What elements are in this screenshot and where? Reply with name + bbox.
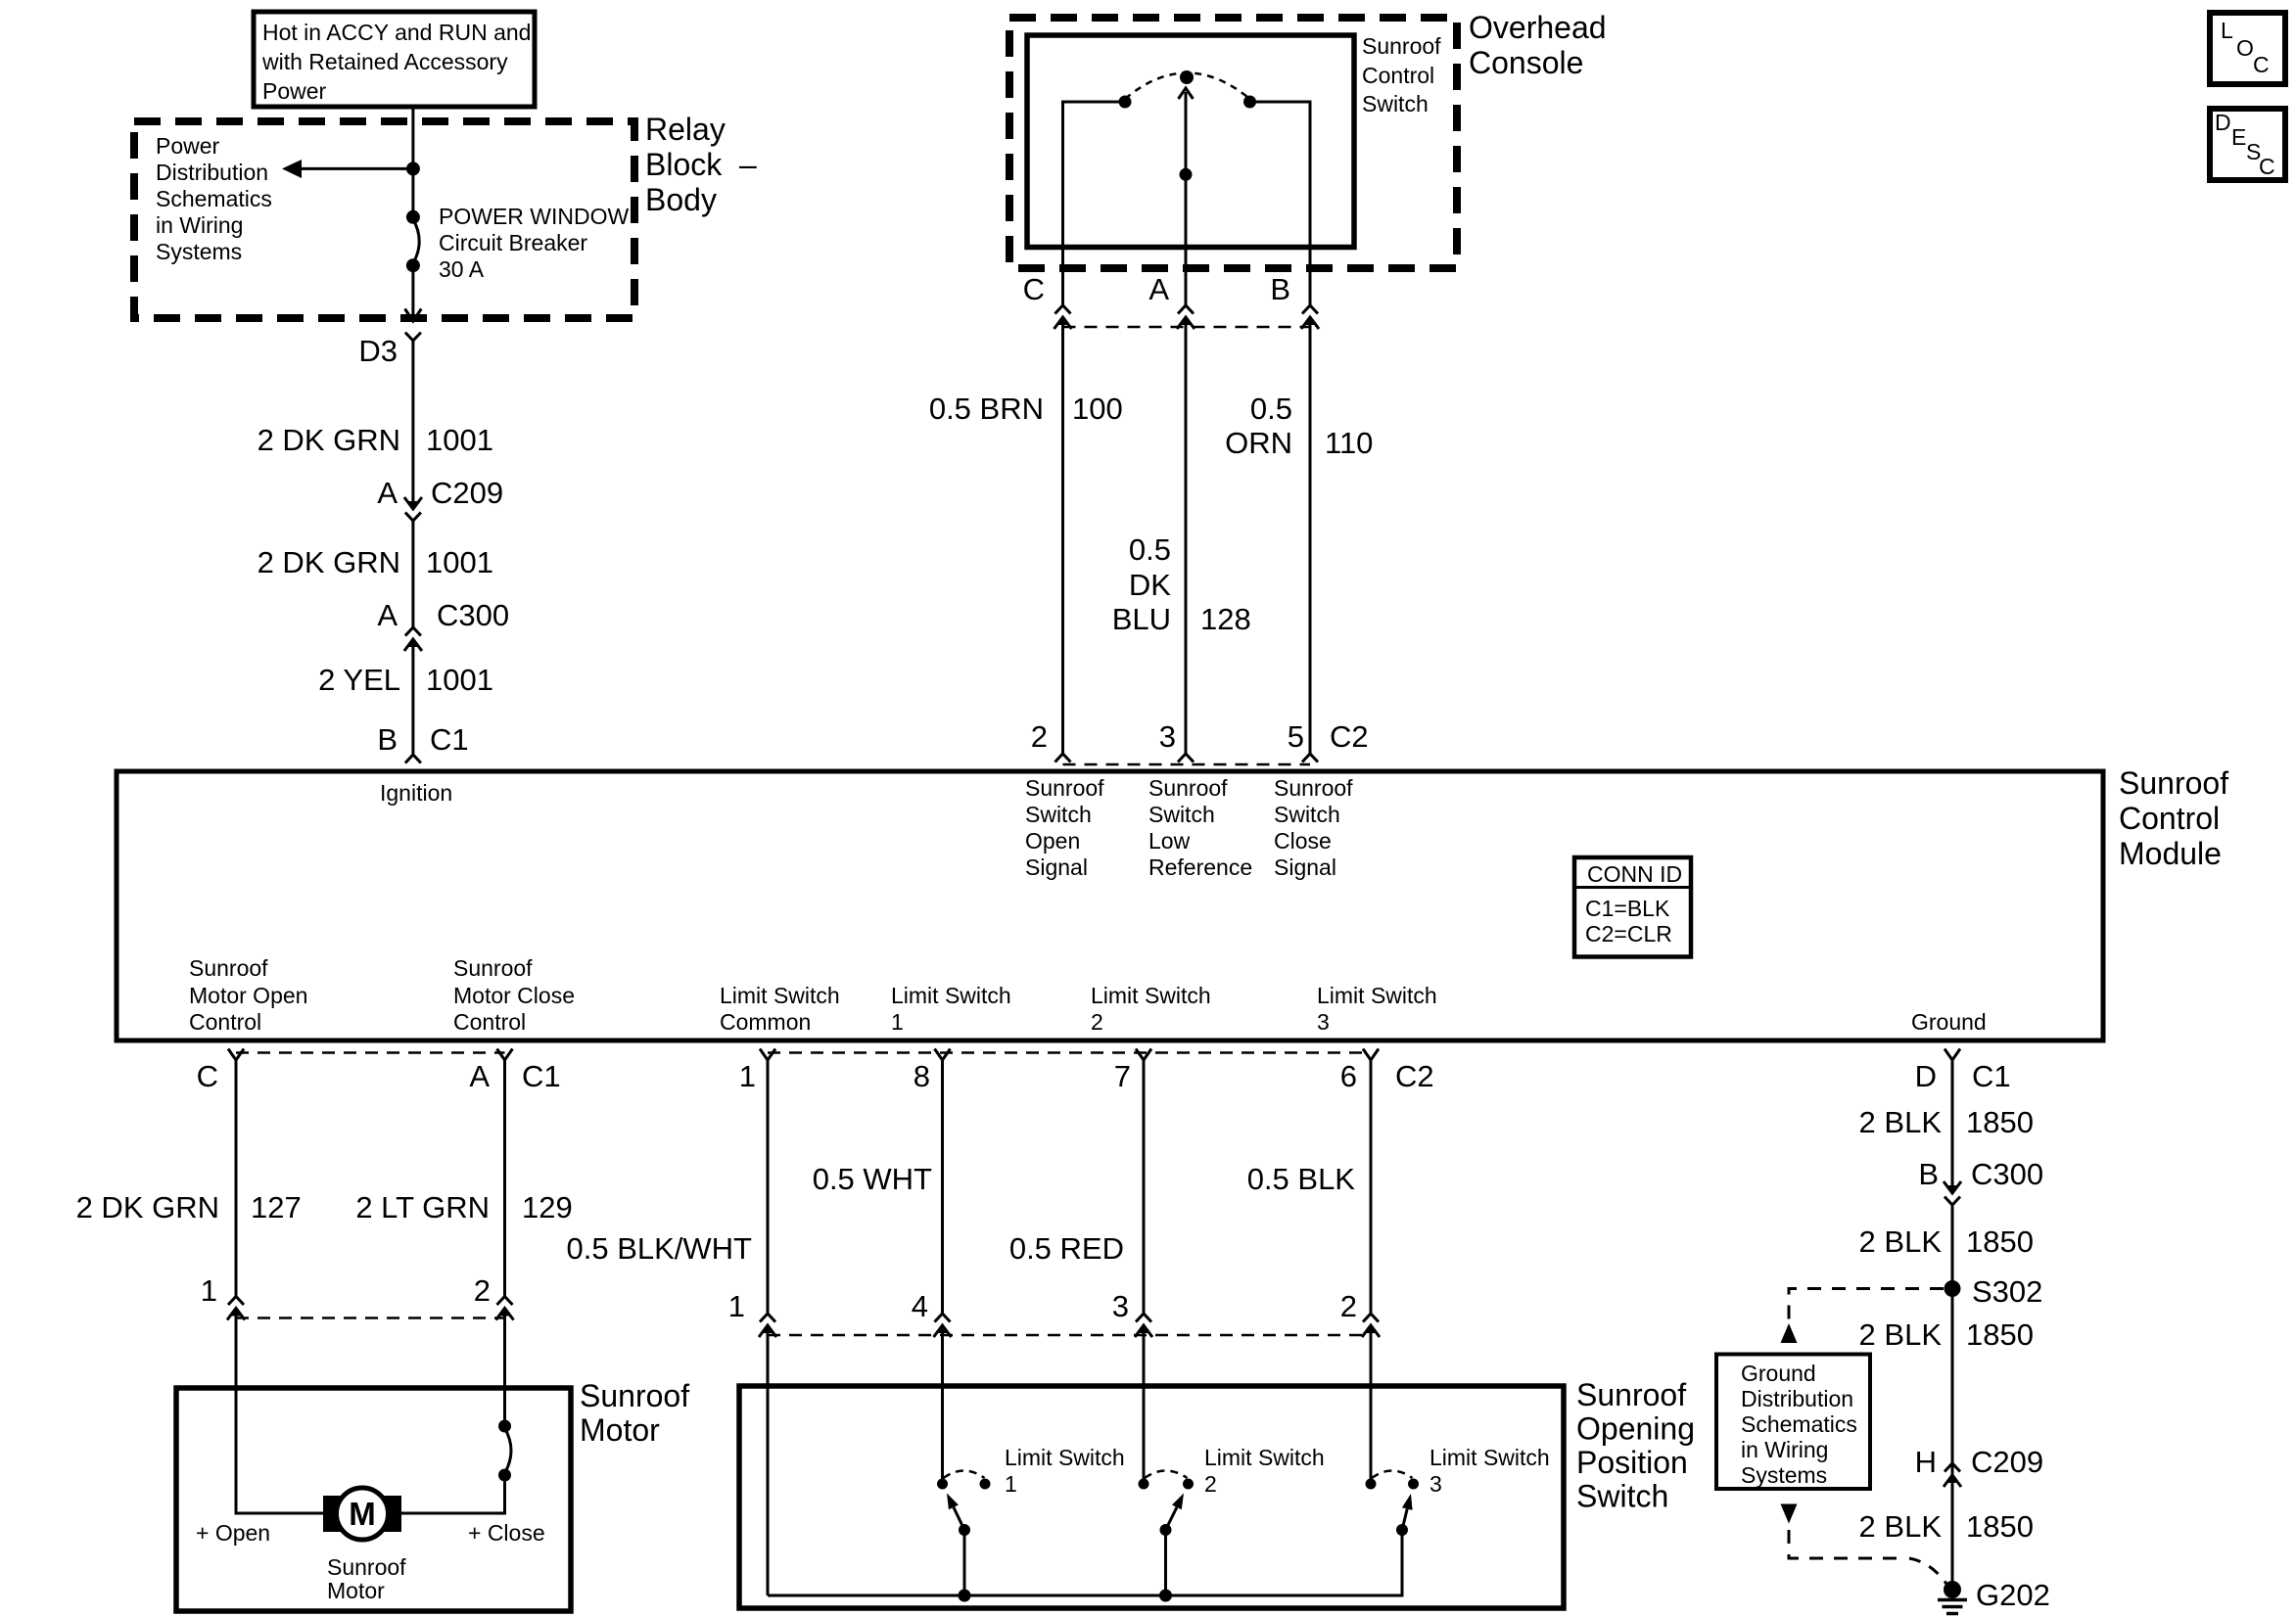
wire into motor box pin1 [235, 1309, 238, 1389]
wire: module pin 1 to position switch [767, 1060, 770, 1314]
svg-text:Distribution: Distribution [156, 160, 268, 185]
sunroof control module title [2119, 765, 2228, 871]
sunroof control module U1 [117, 771, 2103, 1040]
wire: module pin 7 to limit switch 2 [1143, 1060, 1146, 1314]
svg-text:Limit Switch: Limit Switch [891, 983, 1011, 1008]
wire: hot feed into relay block [411, 107, 414, 217]
svg-text:Schematics: Schematics [1741, 1411, 1857, 1437]
svg-text:1850: 1850 [1966, 1105, 2034, 1139]
connector C209 pin A [377, 476, 503, 521]
wire: common leg inside box [767, 1325, 770, 1595]
svg-text:C1: C1 [430, 722, 469, 757]
motor M symbol [323, 1488, 401, 1540]
svg-text:110: 110 [1325, 426, 1373, 460]
svg-text:2 YEL: 2 YEL [318, 663, 400, 697]
svg-text:Limit Switch: Limit Switch [1429, 1445, 1550, 1470]
wire: console pin A lead [1185, 248, 1188, 306]
svg-text:3: 3 [1159, 719, 1176, 754]
svg-text:Limit Switch: Limit Switch [1204, 1445, 1325, 1470]
svg-text:0.5: 0.5 [1250, 392, 1292, 426]
svg-text:5: 5 [1288, 719, 1304, 754]
svg-text:B: B [1270, 272, 1290, 306]
svg-text:2 DK GRN: 2 DK GRN [258, 423, 400, 457]
svg-text:Control: Control [189, 1009, 261, 1035]
dashed throw arc of switch [1125, 73, 1250, 100]
power source box: Hot in ACCY and RUN [254, 12, 535, 107]
dashed tie position switch connector [768, 1334, 1371, 1337]
connector C209 pin H [1915, 1445, 2044, 1487]
svg-text:C: C [2253, 52, 2270, 77]
svg-text:Systems: Systems [156, 239, 242, 264]
port label Limit Switch 2 [1091, 983, 1211, 1035]
svg-text:2: 2 [1340, 1289, 1357, 1323]
svg-text:C: C [2259, 154, 2275, 179]
power distribution note [156, 133, 272, 264]
svg-text:Switch: Switch [1576, 1479, 1668, 1514]
wire: module pin C to motor [235, 1060, 238, 1297]
svg-text:DK: DK [1129, 568, 1171, 602]
svg-text:127: 127 [251, 1190, 302, 1224]
svg-text:2 BLK: 2 BLK [1859, 1224, 1943, 1259]
wire: switch contact C leg [1063, 102, 1126, 248]
svg-text:Motor Open: Motor Open [189, 983, 307, 1008]
svg-text:S302: S302 [1972, 1274, 2042, 1309]
switch pin 1 connector [728, 1289, 776, 1337]
svg-text:Power: Power [156, 133, 220, 159]
wire: C300 to module pin B [411, 639, 414, 755]
svg-text:Sunroof: Sunroof [1274, 775, 1353, 801]
svg-text:Motor Close: Motor Close [453, 983, 575, 1008]
node: switch contact left [1119, 96, 1132, 109]
DESC reference box [2210, 109, 2285, 180]
wire label 0.5 DK BLU 128 [1112, 532, 1251, 636]
module pin 5 connector C2 [1288, 719, 1369, 762]
module pin 7 connector [1114, 1049, 1151, 1094]
svg-text:0.5 WHT: 0.5 WHT [813, 1162, 932, 1196]
port label Limit Switch Common [720, 983, 840, 1035]
thermal protector arc in motor [401, 1388, 511, 1513]
svg-text:Close: Close [1274, 828, 1332, 854]
svg-text:Sunroof: Sunroof [327, 1554, 406, 1580]
port label Sunroof Switch Close Signal [1274, 775, 1353, 880]
wire: switch contact B leg [1250, 102, 1311, 248]
svg-text:0.5 BRN: 0.5 BRN [929, 392, 1044, 426]
svg-text:1: 1 [739, 1059, 756, 1093]
svg-text:C300: C300 [437, 598, 509, 632]
svg-text:1850: 1850 [1966, 1509, 2034, 1544]
svg-text:+ Open: + Open [196, 1520, 270, 1546]
svg-text:Signal: Signal [1025, 855, 1088, 880]
svg-text:Systems: Systems [1741, 1462, 1827, 1488]
switch common armature with arrow [1179, 70, 1195, 248]
sunroof control switch box SW1 [1027, 35, 1354, 248]
wire: C209 to C300 [411, 521, 414, 627]
wire: console pin C lead [1061, 248, 1064, 306]
svg-text:Limit Switch: Limit Switch [1317, 983, 1437, 1008]
svg-text:7: 7 [1114, 1059, 1131, 1093]
svg-text:Sunroof: Sunroof [1025, 775, 1104, 801]
svg-text:D: D [2215, 110, 2231, 135]
port label Limit Switch 1 [891, 983, 1011, 1035]
position switch title [1576, 1377, 1695, 1514]
LOC reference box [2210, 13, 2285, 84]
svg-text:A: A [377, 476, 398, 510]
svg-text:C: C [197, 1059, 218, 1093]
svg-text:1: 1 [1005, 1471, 1017, 1497]
overhead console dashed enclosure [1009, 18, 1457, 268]
dashed stub to ground distribution [1781, 1289, 1945, 1344]
svg-text:C2: C2 [1395, 1059, 1434, 1093]
svg-text:C1=BLK: C1=BLK [1585, 896, 1670, 921]
module pin 6 connector C2 [1340, 1049, 1434, 1094]
svg-text:Sunroof: Sunroof [1362, 33, 1441, 59]
svg-text:Open: Open [1025, 828, 1080, 854]
wire: D3 to C209 [411, 341, 414, 505]
sunroof control switch label [1362, 33, 1441, 116]
svg-text:Circuit Breaker: Circuit Breaker [439, 230, 587, 255]
wire: console pin B lead [1309, 248, 1312, 306]
wire label 2 DK GRN 127 [76, 1190, 302, 1224]
svg-text:Sunroof: Sunroof [189, 955, 268, 981]
module pin 3 connector [1159, 719, 1194, 762]
port label Limit Switch 3 [1317, 983, 1437, 1035]
svg-text:Block –: Block – [645, 147, 757, 182]
svg-text:3: 3 [1317, 1009, 1330, 1035]
svg-text:Console: Console [1469, 45, 1583, 80]
svg-text:Opening: Opening [1576, 1411, 1695, 1447]
connector at console pin B [1301, 305, 1319, 329]
circuit breaker CB: POWER WINDOW 30 A [406, 210, 420, 272]
wire: pin 2 leg into box [1370, 1325, 1373, 1484]
svg-text:H: H [1915, 1445, 1937, 1479]
svg-text:Limit Switch: Limit Switch [1091, 983, 1211, 1008]
svg-text:Motor: Motor [327, 1578, 385, 1603]
wire label 2 BLK 1850 [1859, 1224, 2034, 1259]
svg-text:Control: Control [1362, 63, 1434, 88]
svg-text:C2: C2 [1330, 719, 1369, 754]
node: bus junction 2 [1159, 1590, 1172, 1602]
dashed connector tie line [1063, 326, 1311, 329]
node: feed junction [406, 162, 420, 175]
svg-text:Ground: Ground [1741, 1361, 1816, 1386]
svg-text:Switch: Switch [1362, 91, 1429, 116]
wire label 2 BLK 1850 [1859, 1509, 2034, 1544]
wire: module pin 8 to limit switch 1 [941, 1060, 944, 1314]
port label Sunroof Motor Close Control [453, 955, 575, 1035]
relay block dashed enclosure [134, 121, 634, 318]
svg-text:C1: C1 [522, 1059, 561, 1093]
common bus of position switch [768, 1530, 1402, 1595]
svg-text:Module: Module [2119, 836, 2222, 871]
ground G202 [1938, 1578, 2050, 1614]
svg-text:C1: C1 [1972, 1059, 2011, 1093]
wire: C300 to S302 [1951, 1205, 1954, 1590]
svg-text:Relay: Relay [645, 112, 726, 147]
wire: module pin 6 to limit switch 3 [1370, 1060, 1373, 1314]
svg-text:1850: 1850 [1966, 1224, 2034, 1259]
limit switch LS1 [937, 1471, 991, 1596]
svg-text:Schematics: Schematics [156, 186, 272, 211]
module pin 1 connector [739, 1049, 775, 1094]
svg-text:BLU: BLU [1112, 602, 1171, 636]
dashed tie C to A [236, 1051, 505, 1054]
svg-text:B: B [377, 722, 398, 757]
svg-text:D: D [1915, 1059, 1937, 1093]
module pin 2 connector [1031, 719, 1071, 762]
wire label 2 DK GRN 1001 [258, 423, 493, 457]
switch pin 2 connector [1340, 1289, 1380, 1337]
motor pin 2 connector [474, 1273, 514, 1320]
svg-text:1: 1 [891, 1009, 904, 1035]
svg-text:1001: 1001 [426, 423, 493, 457]
svg-text:2 BLK: 2 BLK [1859, 1317, 1943, 1352]
svg-text:30 A: 30 A [439, 256, 485, 282]
svg-text:Sunroof: Sunroof [2119, 765, 2228, 801]
svg-text:Control: Control [453, 1009, 526, 1035]
limit switch LS2 [1139, 1471, 1195, 1596]
svg-text:Control: Control [2119, 801, 2220, 836]
wire: pin 4 leg into box [941, 1325, 944, 1484]
svg-text:with Retained Accessory: with Retained Accessory [261, 49, 508, 74]
wire label 2 LT GRN 129 [355, 1190, 572, 1224]
dashed tie motor connector [236, 1317, 505, 1319]
svg-text:Motor: Motor [580, 1412, 660, 1448]
svg-text:128: 128 [1200, 602, 1251, 636]
svg-text:A: A [1148, 272, 1169, 306]
svg-text:Limit Switch: Limit Switch [1005, 1445, 1125, 1470]
svg-text:Ground: Ground [1911, 1009, 1987, 1035]
port label Sunroof Switch Open Signal [1025, 775, 1104, 880]
svg-text:Reference: Reference [1148, 855, 1252, 880]
svg-text:1850: 1850 [1966, 1317, 2034, 1352]
svg-text:B: B [1918, 1157, 1939, 1191]
svg-text:1: 1 [201, 1273, 217, 1308]
svg-text:Sunroof: Sunroof [580, 1378, 689, 1413]
ground distribution note box [1716, 1355, 1870, 1490]
port label Sunroof Motor Open Control [189, 955, 307, 1035]
svg-text:+ Close: + Close [468, 1520, 545, 1546]
relay block title [645, 112, 757, 217]
svg-text:2 BLK: 2 BLK [1859, 1509, 1943, 1544]
svg-text:A: A [469, 1059, 490, 1093]
module pin D connector C1 [1915, 1049, 2011, 1094]
connector C300 pin B [1918, 1157, 2043, 1205]
wire label 2 BLK 1850 [1859, 1105, 2034, 1139]
svg-text:Limit Switch: Limit Switch [720, 983, 840, 1008]
svg-text:2 DK GRN: 2 DK GRN [76, 1190, 219, 1224]
motor pin 1 connector [201, 1273, 245, 1320]
svg-text:0.5: 0.5 [1129, 532, 1171, 567]
svg-text:Power: Power [262, 78, 327, 104]
dashed tie at module connector C2 top [1063, 763, 1311, 766]
connector D3 female half [405, 333, 421, 341]
wire: pin C down to module pin 2 [1061, 317, 1064, 754]
dashed tie 1 to 6 [768, 1051, 1371, 1054]
svg-text:2: 2 [1091, 1009, 1103, 1035]
svg-text:in Wiring: in Wiring [1741, 1437, 1828, 1462]
svg-text:Body: Body [645, 182, 717, 217]
limit switch 3 label [1429, 1445, 1550, 1497]
svg-text:1001: 1001 [426, 545, 493, 579]
wire label 0.5 BRN 100 [929, 392, 1123, 426]
overhead console title [1469, 10, 1607, 80]
wire: open side inside motor box [236, 1388, 325, 1513]
wire label 2 BLK 1850 [1859, 1317, 2034, 1352]
svg-text:G202: G202 [1976, 1578, 2050, 1612]
svg-text:0.5 BLK/WHT: 0.5 BLK/WHT [567, 1231, 753, 1266]
limit switch 1 label [1005, 1445, 1125, 1497]
wire: module pin D ground path [1951, 1060, 1954, 1185]
svg-text:2: 2 [474, 1273, 491, 1308]
svg-text:4: 4 [912, 1289, 928, 1323]
svg-text:0.5 RED: 0.5 RED [1009, 1231, 1124, 1266]
connector at console pin A [1177, 305, 1195, 329]
svg-text:C: C [1023, 272, 1045, 306]
svg-text:Distribution: Distribution [1741, 1386, 1853, 1411]
wire: pin A down to module pin 3 [1185, 317, 1188, 754]
sunroof motor box M1 [176, 1388, 571, 1611]
svg-text:1001: 1001 [426, 663, 493, 697]
circuit breaker label [439, 204, 629, 282]
module pin B connector C1 [377, 722, 468, 763]
svg-text:Ignition: Ignition [380, 780, 452, 806]
svg-text:Switch: Switch [1025, 802, 1092, 827]
svg-text:C209: C209 [431, 476, 503, 510]
wire label 2 DK GRN 1001 [258, 545, 493, 579]
node: switch contact right [1243, 96, 1256, 109]
svg-text:in Wiring: in Wiring [156, 212, 243, 238]
svg-text:2: 2 [1204, 1471, 1217, 1497]
wire into motor box pin2 [503, 1309, 506, 1389]
svg-text:Common: Common [720, 1009, 811, 1035]
wire: module pin A to motor [503, 1060, 506, 1297]
label Sunroof Motor under symbol [327, 1554, 406, 1603]
svg-text:0.5 BLK: 0.5 BLK [1247, 1162, 1356, 1196]
port label Sunroof Switch Low Reference [1148, 775, 1252, 880]
svg-text:C209: C209 [1971, 1445, 2043, 1479]
connector C300 pin A [377, 598, 509, 651]
svg-text:D3: D3 [358, 334, 398, 368]
svg-text:M: M [349, 1496, 376, 1532]
wire: breaker to relay block edge [411, 265, 414, 320]
svg-text:Sunroof: Sunroof [1576, 1377, 1686, 1412]
svg-text:6: 6 [1340, 1059, 1357, 1093]
wire: arrow to power distribution [282, 160, 413, 178]
CONN ID legend box [1574, 857, 1691, 957]
module pin C connector [197, 1049, 244, 1094]
svg-text:Low: Low [1148, 828, 1191, 854]
connector at console pin C [1054, 305, 1072, 329]
svg-text:O: O [2236, 35, 2254, 61]
svg-text:129: 129 [522, 1190, 573, 1224]
sunroof motor title [580, 1378, 689, 1448]
svg-text:A: A [377, 598, 398, 632]
wire: pin B down to module pin 5 [1309, 317, 1312, 754]
node: bus junction 1 [959, 1590, 971, 1602]
svg-text:Switch: Switch [1148, 802, 1215, 827]
splice S302 [1945, 1274, 2043, 1309]
svg-text:3: 3 [1112, 1289, 1129, 1323]
svg-text:2 LT GRN: 2 LT GRN [355, 1190, 490, 1224]
arrow out of relay block [405, 309, 422, 322]
limit switch LS3 [1366, 1471, 1420, 1537]
svg-text:E: E [2231, 124, 2246, 150]
svg-text:Position: Position [1576, 1445, 1688, 1480]
svg-text:POWER WINDOW: POWER WINDOW [439, 204, 629, 229]
wire label 2 YEL 1001 [318, 663, 493, 697]
module pin 8 connector [914, 1049, 951, 1094]
svg-text:Overhead: Overhead [1469, 10, 1607, 45]
dashed stub from ground note to G202 [1781, 1504, 1947, 1585]
switch pin 3 connector [1112, 1289, 1152, 1337]
svg-text:CONN ID: CONN ID [1587, 861, 1682, 887]
svg-text:3: 3 [1429, 1471, 1442, 1497]
svg-text:2 BLK: 2 BLK [1859, 1105, 1943, 1139]
svg-text:2: 2 [1031, 719, 1048, 754]
module pin A connector C1 [469, 1049, 560, 1094]
svg-text:Switch: Switch [1274, 802, 1340, 827]
sunroof opening position switch box S1 [739, 1386, 1564, 1608]
svg-text:Hot in ACCY and RUN and: Hot in ACCY and RUN and [262, 20, 531, 45]
svg-text:100: 100 [1072, 392, 1123, 426]
wire: pin 3 leg into box [1143, 1325, 1146, 1484]
wire label 0.5 ORN 110 [1225, 392, 1373, 460]
switch pin 4 connector [912, 1289, 952, 1337]
svg-text:L: L [2221, 18, 2233, 43]
svg-text:Signal: Signal [1274, 855, 1336, 880]
svg-text:2 DK GRN: 2 DK GRN [258, 545, 400, 579]
svg-text:1: 1 [728, 1289, 745, 1323]
svg-text:C300: C300 [1971, 1157, 2043, 1191]
limit switch 2 label [1204, 1445, 1325, 1497]
svg-text:C2=CLR: C2=CLR [1585, 921, 1672, 947]
svg-text:Sunroof: Sunroof [1148, 775, 1228, 801]
svg-text:Sunroof: Sunroof [453, 955, 533, 981]
svg-text:ORN: ORN [1225, 426, 1292, 460]
svg-text:8: 8 [914, 1059, 930, 1093]
